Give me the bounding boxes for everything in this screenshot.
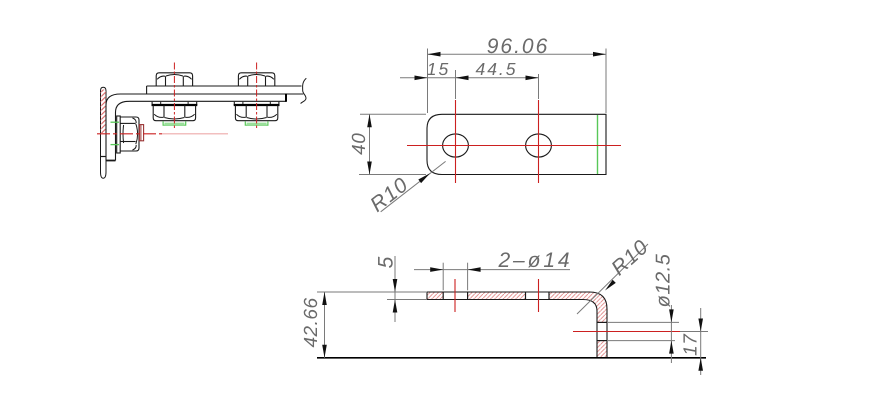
beam plate on bracket xyxy=(147,86,302,94)
bolt protruding thread end xyxy=(139,125,143,141)
vertical centerline hole H2 xyxy=(538,100,540,183)
svg-text:96.06: 96.06 xyxy=(487,35,550,58)
section profile of bracket (L-shape) xyxy=(427,292,607,358)
hex nut (x=174.4) xyxy=(153,105,195,121)
side hole extension lines xyxy=(608,321,679,323)
dim 96.06 xyxy=(428,35,607,113)
side hole centerline (section) xyxy=(573,331,680,333)
wall joint line xyxy=(101,156,107,158)
bolt head (x=174.4) xyxy=(156,73,192,86)
hole H1 (top view) xyxy=(443,134,469,157)
bracket horizontal leg top edge / beam underside xyxy=(121,93,304,95)
svg-text:15: 15 xyxy=(427,59,450,79)
hole centerline H2 (section) xyxy=(538,279,540,312)
spring washer (green, x=256.6) xyxy=(245,121,268,125)
top view: plate outline with rounded left corners xyxy=(427,114,606,174)
svg-text:ø12.5: ø12.5 xyxy=(653,253,675,307)
bracket vertical leg and bend (left view) xyxy=(106,94,286,161)
dim 40 xyxy=(349,114,426,174)
svg-text:17: 17 xyxy=(681,333,702,356)
dim diam12.5 xyxy=(653,253,675,363)
side bolt washer plate xyxy=(117,116,121,153)
dim 17 xyxy=(681,308,704,375)
bolt centerline (x=174.4) xyxy=(173,63,175,130)
beam break line xyxy=(301,78,307,103)
horizontal centerline (top view) xyxy=(407,145,621,147)
dim 2-diam14 xyxy=(414,249,573,290)
dim 42.66 xyxy=(301,292,367,358)
radius leader R10 (top view) xyxy=(366,161,446,216)
dim 15 xyxy=(400,59,539,99)
bend tangent line (green) xyxy=(597,115,599,174)
wall section (hatched) xyxy=(101,87,107,178)
svg-text:40: 40 xyxy=(349,133,370,155)
bottom reference line xyxy=(317,357,706,359)
spring washer marks (green) xyxy=(111,121,120,123)
spring washer (green, x=174.4) xyxy=(163,121,186,125)
hole H2 (top view) xyxy=(526,134,552,157)
svg-text:5: 5 xyxy=(375,255,398,269)
radius leader R10 (section) xyxy=(577,235,653,314)
bracket leg end face xyxy=(285,94,287,102)
hole gaps (white) in section xyxy=(443,291,467,301)
svg-text:44.5: 44.5 xyxy=(475,59,517,79)
dim 44.5 xyxy=(456,59,539,99)
hole edge lines in section xyxy=(442,292,444,300)
hex nut (x=256.6) xyxy=(235,105,277,121)
svg-text:2–ø14: 2–ø14 xyxy=(497,249,572,272)
washer under bracket (x=256.6) xyxy=(233,102,235,105)
washer under bracket (x=174.4) xyxy=(151,102,153,105)
dim 5 (thickness) xyxy=(367,255,426,322)
side bolt centerline xyxy=(97,133,162,135)
bolt centerline (x=256.6) xyxy=(256,63,258,130)
svg-text:42.66: 42.66 xyxy=(301,297,322,347)
side hex nut xyxy=(120,117,139,151)
hole centerline H1 (section) xyxy=(454,279,456,312)
vertical centerline hole H1 xyxy=(455,100,457,183)
bolt head (x=256.6) xyxy=(238,73,274,86)
